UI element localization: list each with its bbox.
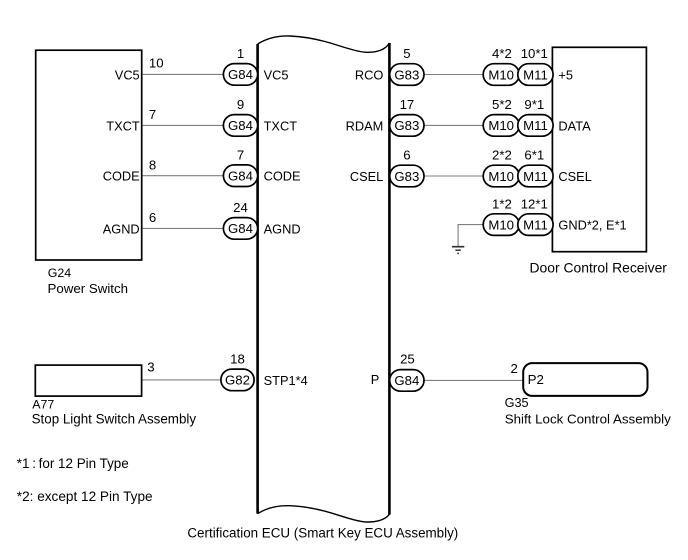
svg-text:G84: G84 — [394, 373, 419, 388]
svg-text:2*2: 2*2 — [492, 148, 512, 163]
svg-text:G35: G35 — [505, 396, 529, 410]
svg-text:2: 2 — [511, 361, 518, 376]
svg-text:M11: M11 — [523, 217, 548, 232]
svg-text:1: 1 — [237, 46, 244, 61]
svg-text:RCO: RCO — [355, 68, 383, 83]
svg-text:17: 17 — [400, 97, 415, 112]
svg-text:M10: M10 — [488, 217, 514, 232]
svg-text:6*1: 6*1 — [524, 148, 544, 163]
svg-text:DATA: DATA — [558, 118, 591, 133]
svg-text:VC5: VC5 — [264, 67, 289, 82]
svg-text:5: 5 — [403, 46, 410, 61]
svg-text:M11: M11 — [523, 67, 548, 82]
svg-text:12*1: 12*1 — [521, 196, 548, 211]
svg-text:1*2: 1*2 — [492, 196, 512, 211]
svg-text:7: 7 — [149, 107, 156, 122]
svg-text:M11: M11 — [523, 169, 548, 184]
svg-text:G83: G83 — [394, 169, 419, 184]
svg-text:G84: G84 — [228, 169, 253, 184]
svg-text:CODE: CODE — [264, 169, 301, 184]
svg-text:*2: except 12 Pin Type: *2: except 12 Pin Type — [17, 489, 153, 504]
svg-text:M10: M10 — [488, 118, 514, 133]
svg-text:25: 25 — [400, 352, 415, 367]
svg-text:G82: G82 — [225, 373, 250, 388]
svg-text:G83: G83 — [394, 118, 419, 133]
svg-text:TXCT: TXCT — [264, 118, 298, 133]
svg-text:AGND: AGND — [264, 221, 301, 236]
svg-text:CODE: CODE — [103, 169, 140, 184]
svg-text:M10: M10 — [488, 169, 514, 184]
svg-text:3: 3 — [147, 359, 154, 374]
svg-text:Certification ECU (Smart Key E: Certification ECU (Smart Key ECU Assembl… — [187, 525, 458, 540]
svg-text:G83: G83 — [394, 67, 419, 82]
svg-text:G84: G84 — [228, 67, 253, 82]
svg-text:STP1*4: STP1*4 — [264, 373, 308, 388]
svg-text:7: 7 — [237, 147, 244, 162]
svg-text:VC5: VC5 — [115, 67, 140, 82]
svg-text:8: 8 — [149, 158, 156, 173]
svg-text:G84: G84 — [228, 221, 253, 236]
svg-text:M11: M11 — [523, 118, 548, 133]
svg-text:M10: M10 — [488, 67, 514, 82]
svg-text:P2: P2 — [528, 372, 544, 387]
svg-text:4*2: 4*2 — [492, 46, 512, 61]
svg-text:Power Switch: Power Switch — [48, 281, 129, 296]
svg-text:10*1: 10*1 — [521, 46, 548, 61]
svg-text:6: 6 — [149, 210, 156, 225]
svg-text:CSEL: CSEL — [350, 169, 383, 184]
svg-text:A77: A77 — [32, 398, 54, 412]
svg-text:Door Control Receiver: Door Control Receiver — [530, 259, 668, 275]
svg-text:+5: +5 — [558, 68, 573, 83]
svg-text:GND*2, E*1: GND*2, E*1 — [558, 218, 626, 233]
svg-text:9: 9 — [237, 97, 244, 112]
svg-text:Shift Lock Control Assembly: Shift Lock Control Assembly — [505, 411, 671, 426]
svg-text:*1 : for 12 Pin Type: *1 : for 12 Pin Type — [17, 456, 129, 471]
svg-text:CSEL: CSEL — [558, 169, 591, 184]
svg-text:24: 24 — [233, 200, 248, 215]
svg-text:RDAM: RDAM — [346, 118, 384, 133]
svg-text:5*2: 5*2 — [492, 97, 512, 112]
svg-text:18: 18 — [230, 352, 245, 367]
svg-text:AGND: AGND — [103, 221, 140, 236]
svg-text:10: 10 — [149, 55, 164, 70]
svg-text:P: P — [371, 372, 380, 387]
svg-text:Stop Light Switch Assembly: Stop Light Switch Assembly — [32, 412, 197, 427]
svg-text:TXCT: TXCT — [106, 118, 140, 133]
svg-text:9*1: 9*1 — [524, 97, 544, 112]
svg-text:G84: G84 — [228, 118, 253, 133]
svg-text:G24: G24 — [48, 266, 72, 280]
svg-text:6: 6 — [403, 148, 410, 163]
